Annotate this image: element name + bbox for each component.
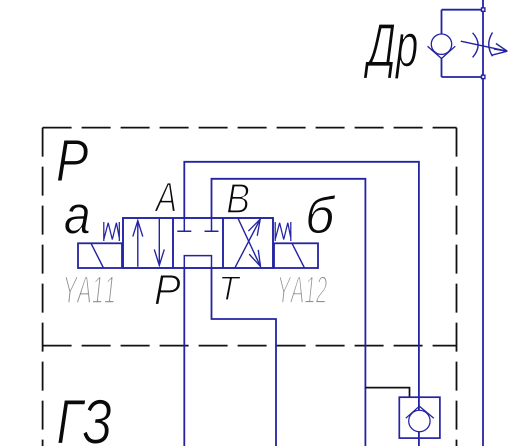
- solenoid YA11 (box with diagonal): [78, 243, 122, 268]
- throttle Др (adjustable restrictor on main line): [461, 33, 508, 58]
- check valve (bypass, ball in seat): [428, 34, 456, 59]
- spring (left, centering): [104, 222, 120, 241]
- valve centre: bottom notch P-T: [184, 256, 211, 268]
- label Р (port P): [155, 275, 180, 305]
- node: junction square top: [482, 8, 485, 11]
- valve centre: blocked port A stub: [177, 218, 191, 231]
- solenoid YA12 (box with diagonal): [274, 243, 318, 268]
- valve position b: crossed arrow down-right: [238, 218, 261, 266]
- wire: port A up and across to right: [184, 162, 419, 446]
- enclosure ГЗ top edge (dashed): [43, 345, 457, 347]
- label б (position b): [308, 195, 336, 233]
- wire: port B up and across to right: [212, 179, 366, 446]
- wire (black) from B line into check valve box: [365, 388, 409, 398]
- label Т (port T): [221, 276, 240, 300]
- enclosure Р (dashed boundary): [43, 128, 457, 446]
- wire: port P down: [183, 268, 185, 446]
- label ГЗ: [58, 399, 111, 444]
- wire: port T down, jog right: [212, 268, 277, 446]
- spring (right, centering): [275, 222, 291, 241]
- valve position a: straight arrow up: [137, 221, 139, 267]
- label Р (enclosure): [57, 140, 87, 181]
- wire: main supply line (vertical, right side): [482, 0, 484, 446]
- wire: bypass branch top: [442, 10, 484, 34]
- check valve (in ГЗ, boxed): [399, 397, 440, 438]
- label YA11: [65, 276, 114, 303]
- valve centre: blocked port B stub: [205, 218, 219, 231]
- label А (port A): [154, 183, 175, 212]
- label а (position a): [65, 204, 89, 234]
- label В (port B): [227, 184, 248, 213]
- label Др: [364, 24, 418, 79]
- wire: bypass branch bottom: [442, 59, 484, 78]
- valve position a: straight arrow down: [158, 219, 160, 265]
- node: junction square bottom: [482, 75, 485, 78]
- label YA12: [279, 276, 327, 303]
- directional valve body (3 positions): [123, 218, 273, 268]
- valve position b: crossed arrow up-right: [235, 219, 260, 268]
